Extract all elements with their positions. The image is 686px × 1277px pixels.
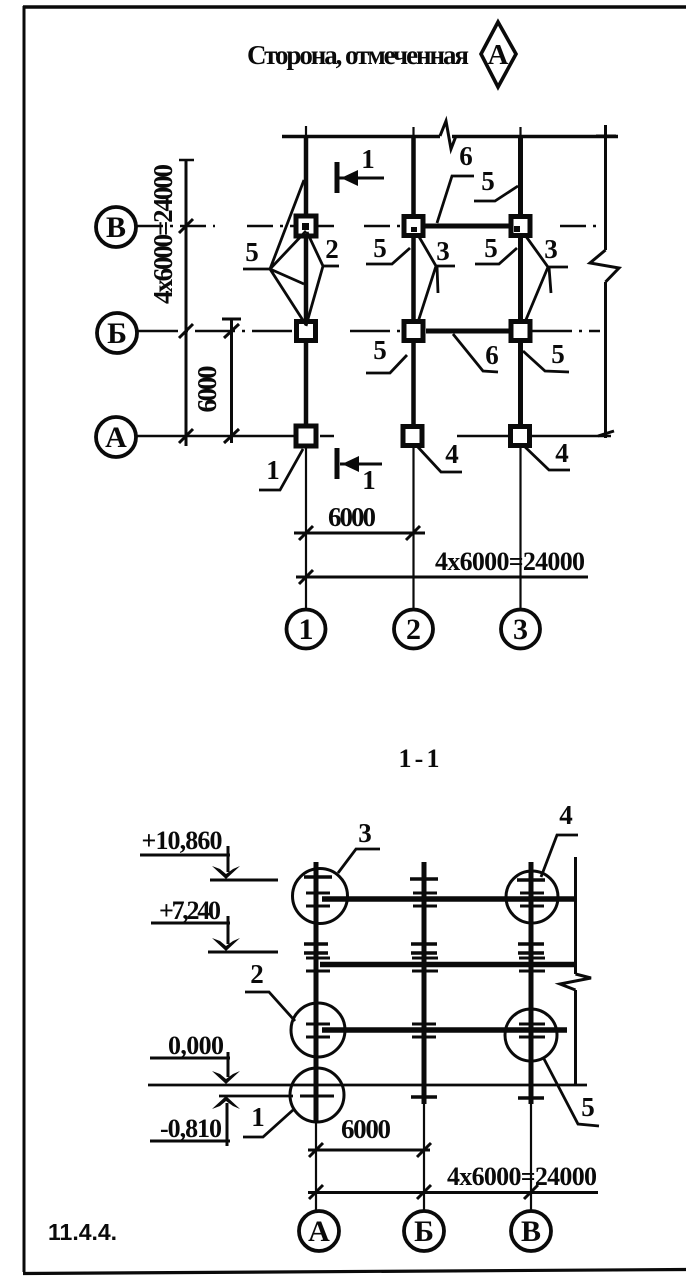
svg-text:3: 3 bbox=[436, 236, 450, 266]
beam3 joint pad col Б bbox=[412, 1024, 436, 1037]
axis circle В bbox=[96, 207, 136, 247]
svg-text:5: 5 bbox=[484, 233, 498, 263]
splice ticks col Б bbox=[411, 944, 437, 953]
right line tick top bbox=[596, 135, 616, 138]
svg-text:6000: 6000 bbox=[328, 502, 376, 532]
svg-text:4: 4 bbox=[445, 439, 459, 469]
top wall line bbox=[282, 135, 618, 139]
elevation mark +10,860 bbox=[140, 826, 278, 880]
svg-text:3: 3 bbox=[513, 613, 528, 646]
base square col1 row В bbox=[296, 216, 316, 236]
bottom tee col Б bbox=[411, 1095, 437, 1099]
page frame bottom border bbox=[23, 1270, 686, 1274]
base square col3 row А bbox=[511, 427, 530, 446]
column spike above wall col1 bbox=[305, 126, 307, 137]
beam3 joint pad col В bbox=[519, 1024, 545, 1037]
elevation mark -0,810 bbox=[150, 1096, 240, 1146]
section dim line 24000 bbox=[308, 1191, 598, 1194]
callout circle col В mid bbox=[505, 1009, 557, 1061]
leader 6 top bbox=[437, 176, 474, 223]
tick s24000 right bbox=[524, 1185, 538, 1199]
break symbol on top line bbox=[440, 121, 456, 149]
section column А bbox=[314, 862, 319, 1122]
svg-text:5: 5 bbox=[551, 339, 565, 369]
leader 6 row Б bbox=[453, 334, 498, 372]
svg-text:В: В bbox=[521, 1215, 541, 1248]
leader 5 top right bbox=[474, 186, 518, 201]
svg-text:4х6000=24000: 4х6000=24000 bbox=[148, 164, 178, 304]
beam3 joint pad col А bbox=[306, 1024, 330, 1037]
beam level 3 bbox=[322, 1027, 567, 1033]
top tee col А bbox=[304, 875, 332, 879]
extension col А to circle bbox=[315, 1122, 317, 1211]
tick inside bottom circle bbox=[300, 1095, 334, 1098]
beam row В between col2-col3 bbox=[422, 224, 512, 229]
base square col1 row Б bbox=[297, 322, 316, 341]
svg-text:6000: 6000 bbox=[192, 366, 222, 413]
leader 3 col3 vee bbox=[525, 235, 568, 322]
ground line 0.000 bbox=[148, 1084, 587, 1087]
svg-text:4х6000=24000: 4х6000=24000 bbox=[447, 1162, 597, 1191]
break symbol on right line bbox=[590, 250, 619, 282]
base square col2 row В bbox=[404, 217, 423, 236]
axis circle 1 bbox=[287, 610, 326, 649]
callout 2 col1 leader bbox=[323, 265, 339, 268]
tick b24000 left bbox=[299, 570, 313, 584]
dim2 top stub bbox=[222, 318, 241, 321]
callout 5 col1 leader bbox=[243, 268, 270, 271]
section column Б bbox=[422, 862, 427, 1104]
svg-text:Б: Б bbox=[107, 317, 127, 350]
tick s6000 left bbox=[309, 1143, 323, 1157]
marked-side diamond bbox=[481, 22, 516, 87]
svg-text:Сторона, отмеченная: Сторона, отмеченная bbox=[247, 40, 469, 70]
axis circle 3 bbox=[501, 610, 540, 649]
svg-text:1 - 1: 1 - 1 bbox=[399, 744, 440, 773]
section leader 4 bbox=[541, 835, 578, 877]
leader 5 col2 row Б bbox=[366, 355, 407, 373]
svg-text:-0,810: -0,810 bbox=[160, 1114, 222, 1143]
elevation mark +7,240 bbox=[151, 896, 278, 952]
level line -0.810 bbox=[219, 1095, 293, 1098]
section column В bbox=[529, 862, 534, 1104]
tick s6000 right bbox=[417, 1143, 431, 1157]
base square col2 row А bbox=[403, 427, 422, 446]
svg-text:0,000: 0,000 bbox=[168, 1031, 224, 1060]
column line 3 bbox=[518, 136, 523, 447]
svg-text:2: 2 bbox=[250, 959, 264, 989]
axis circle А bbox=[96, 417, 136, 457]
column spike above wall col2 bbox=[412, 127, 414, 137]
section dim line 6000 bbox=[308, 1149, 430, 1152]
beam1 joint pad col Б bbox=[413, 893, 437, 906]
svg-text:5: 5 bbox=[481, 166, 495, 196]
svg-text:2: 2 bbox=[406, 613, 421, 646]
leader 5 col3 row В bbox=[475, 248, 517, 264]
elevation mark 0,000 bbox=[150, 1031, 240, 1084]
right boundary line bbox=[604, 125, 607, 438]
svg-text:А: А bbox=[105, 421, 127, 454]
svg-text:3: 3 bbox=[544, 234, 558, 264]
svg-text:Б: Б bbox=[414, 1215, 434, 1248]
svg-text:4: 4 bbox=[559, 800, 573, 830]
beam2 joint pad col Б bbox=[412, 958, 438, 971]
column spike above wall col3 bbox=[519, 127, 521, 137]
svg-text:6: 6 bbox=[485, 340, 499, 370]
svg-text:В: В bbox=[106, 211, 126, 244]
beam2 joint pad col А bbox=[306, 958, 330, 971]
axis А line bbox=[137, 435, 611, 438]
extension col Б to circle bbox=[423, 1104, 425, 1211]
top stub of left dim line bbox=[179, 159, 194, 162]
section mark bottom bbox=[337, 448, 382, 479]
extension line col2 to circles bbox=[412, 447, 414, 609]
leader 5 col2 row В bbox=[366, 248, 410, 264]
beam row Б between col2-col3 bbox=[426, 329, 512, 334]
svg-text:А: А bbox=[488, 39, 509, 71]
leader 1 row А bbox=[259, 449, 303, 490]
beam2 joint pad col В bbox=[519, 958, 545, 971]
beam1 joint pad col А bbox=[306, 893, 330, 906]
tick on dim at В bbox=[179, 219, 193, 233]
extension line col1 to circles bbox=[305, 447, 307, 609]
svg-text:1: 1 bbox=[266, 455, 280, 485]
svg-text:5: 5 bbox=[373, 233, 387, 263]
top tee col Б bbox=[410, 877, 438, 881]
extension line col3 to circles bbox=[519, 447, 521, 609]
section leader 1 bbox=[243, 1110, 293, 1137]
tick on dim at А bbox=[179, 429, 193, 443]
section right boundary line bbox=[574, 857, 577, 1086]
leader 4 col3 bbox=[523, 445, 570, 470]
axis Б dash line bbox=[138, 330, 600, 333]
svg-text:2: 2 bbox=[325, 234, 339, 264]
column line 2 bbox=[411, 136, 416, 447]
svg-text:+7,240: +7,240 bbox=[159, 896, 221, 925]
leader 4 col2 bbox=[416, 445, 462, 472]
leader 5 col3 row Б bbox=[523, 351, 569, 372]
svg-text:1: 1 bbox=[299, 613, 314, 646]
svg-text:6: 6 bbox=[459, 141, 473, 171]
section leader 3 bbox=[338, 849, 380, 873]
tick dim2 at Б bbox=[224, 324, 239, 338]
top tee col В bbox=[517, 878, 545, 882]
callout circle col А top bbox=[293, 869, 348, 924]
tick s24000 mid bbox=[417, 1185, 431, 1199]
tick b6000 left bbox=[299, 526, 313, 540]
svg-text:+10,860: +10,860 bbox=[142, 826, 223, 855]
callout circle col А mid bbox=[291, 1003, 345, 1057]
svg-text:1: 1 bbox=[362, 465, 376, 495]
tick dim2 at А bbox=[224, 429, 239, 443]
svg-text:4: 4 bbox=[555, 438, 569, 468]
callout diamond col1 bbox=[270, 180, 323, 326]
beam level 1 bbox=[322, 896, 576, 902]
extension col В to circle bbox=[530, 1104, 532, 1211]
left dimension line 24000 bbox=[185, 159, 188, 446]
break symbol right line section bbox=[560, 974, 591, 990]
svg-text:1: 1 bbox=[251, 1102, 265, 1132]
page frame top border bbox=[23, 5, 686, 8]
svg-text:6000: 6000 bbox=[341, 1114, 391, 1144]
svg-text:4х6000=24000: 4х6000=24000 bbox=[435, 547, 585, 576]
splice ticks col А bbox=[304, 944, 328, 953]
svg-text:11.4.4.: 11.4.4. bbox=[48, 1219, 117, 1245]
base square col3 row Б bbox=[511, 322, 530, 341]
callout circle col А bottom bbox=[290, 1068, 344, 1122]
section axis circle Б bbox=[404, 1211, 444, 1251]
svg-text:5: 5 bbox=[581, 1092, 595, 1122]
leader 3 col2 vee bbox=[418, 235, 455, 322]
beam level 2 bbox=[320, 962, 576, 968]
section leader 2 bbox=[245, 992, 295, 1021]
axis В dash line bbox=[137, 225, 602, 228]
svg-text:А: А bbox=[308, 1215, 330, 1248]
bottom dim line 24000 bbox=[296, 576, 588, 579]
section axis circle В bbox=[511, 1211, 551, 1251]
base square col1 row А bbox=[296, 426, 316, 446]
splice ticks col В bbox=[518, 944, 544, 953]
section mark top bbox=[337, 162, 384, 193]
svg-text:5: 5 bbox=[373, 335, 387, 365]
svg-text:1: 1 bbox=[361, 144, 375, 174]
tick s24000 left bbox=[309, 1185, 323, 1199]
tick on dim at Б bbox=[179, 324, 193, 338]
callout circle col В top bbox=[506, 871, 558, 923]
base square col2 row Б bbox=[404, 322, 423, 341]
bottom tee col В bbox=[518, 1096, 544, 1100]
axis circle 2 bbox=[394, 610, 433, 649]
axis circle Б bbox=[97, 313, 137, 353]
svg-text:3: 3 bbox=[358, 818, 372, 848]
tick b6000 right bbox=[406, 526, 420, 540]
beam1 joint pad col В bbox=[520, 893, 544, 906]
left dimension line 6000 bbox=[230, 318, 233, 443]
base square col3 row В bbox=[511, 217, 530, 236]
svg-text:5: 5 bbox=[245, 237, 259, 267]
page frame left border bbox=[23, 6, 26, 1272]
right line tick row А bbox=[598, 431, 614, 436]
section leader 5 bbox=[543, 1057, 599, 1126]
column line 1 bbox=[304, 136, 309, 447]
section axis circle А bbox=[299, 1211, 339, 1251]
bottom dim line 6000 bbox=[294, 532, 425, 535]
